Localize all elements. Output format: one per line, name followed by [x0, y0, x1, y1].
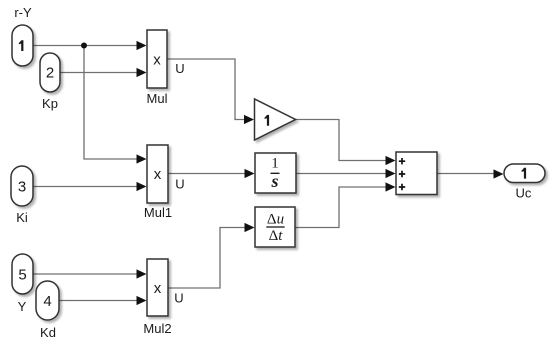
gain block (value 1) — [255, 99, 296, 140]
inport 5 (Y) — [12, 254, 33, 294]
wire: port3 to Mul1 input2 — [33, 186, 140, 188]
arrowhead into Sum input3 — [386, 182, 396, 191]
wire: Mul output to Gain input — [167, 59, 247, 120]
arrowhead into Mul1 input1 — [137, 154, 147, 163]
svg-text:x: x — [154, 166, 162, 183]
svg-text:4: 4 — [43, 293, 51, 310]
svg-text:1: 1 — [271, 156, 279, 172]
svg-text:Mul1: Mul1 — [144, 205, 172, 220]
svg-text:x: x — [153, 52, 161, 69]
product block Mul1 — [147, 145, 168, 203]
svg-text:Ki: Ki — [16, 210, 28, 225]
arrowhead into Mul2 input1 — [137, 269, 147, 278]
svg-text:Y: Y — [18, 299, 27, 314]
svg-text:s: s — [270, 171, 278, 191]
svg-text:5: 5 — [18, 267, 26, 284]
node junction dot — [81, 43, 87, 49]
inport 3 (Ki) — [11, 166, 33, 206]
plus sign input3 — [399, 184, 405, 190]
wire: Gain output to Sum input1 — [296, 120, 390, 161]
wire: Mul1 output to Integrator input — [168, 173, 248, 175]
wire: port2 to Mul input2 — [60, 72, 140, 74]
svg-text:Uc: Uc — [516, 186, 532, 201]
arrowhead into Sum input1 — [386, 156, 396, 165]
derivative block du/dt — [255, 207, 295, 247]
wire: port1 to Mul input1 — [33, 45, 140, 47]
arrowhead into Sum input2 — [386, 169, 396, 178]
arrowhead into Outport — [494, 169, 504, 178]
wire: Integrator output to Sum input2 — [296, 173, 389, 175]
svg-text:x: x — [154, 280, 162, 297]
inport 1 (r-Y) — [12, 25, 33, 66]
arrowhead into Mul1 input2 — [137, 182, 147, 191]
sum block — [396, 152, 437, 195]
svg-text:Δt: Δt — [269, 228, 284, 244]
plus sign input1 — [399, 158, 405, 164]
svg-text:U: U — [174, 291, 183, 306]
svg-text:3: 3 — [18, 179, 26, 196]
inport 2 (Kp) — [40, 53, 60, 92]
outport 1 (Uc) — [504, 164, 545, 183]
wire: port4 to Mul2 input2 — [59, 300, 140, 302]
inport 4 (Kd) — [36, 281, 59, 320]
product block Mul — [147, 30, 167, 88]
svg-text:U: U — [175, 61, 184, 76]
integrator block 1/s — [255, 153, 296, 193]
svg-text:Mul2: Mul2 — [143, 321, 171, 336]
svg-text:2: 2 — [46, 65, 54, 82]
arrowhead into Mul2 input2 — [137, 296, 147, 305]
svg-text:U: U — [175, 177, 184, 192]
wire: Mul2 output to Derivative input — [168, 228, 248, 289]
wire: branch from node down to Mul1 input1 — [84, 46, 140, 160]
svg-text:Δu: Δu — [267, 212, 284, 228]
arrowhead into Integrator — [245, 169, 255, 178]
wire: port5 to Mul2 input1 — [33, 273, 140, 275]
plus sign input2 — [399, 171, 405, 177]
svg-text:Kp: Kp — [42, 96, 58, 111]
arrowhead into Mul input1 — [137, 41, 147, 50]
arrowhead into Mul input2 — [137, 68, 147, 77]
product block Mul2 — [147, 259, 168, 316]
arrowhead into Gain — [244, 115, 254, 124]
svg-text:Kd: Kd — [40, 325, 56, 340]
wire: Derivative output to Sum input3 — [295, 187, 389, 228]
svg-text:Mul: Mul — [147, 91, 168, 106]
svg-text:r-Y: r-Y — [14, 5, 32, 20]
arrowhead into Derivative — [245, 223, 255, 232]
wire: Sum output to Outport — [437, 173, 496, 175]
